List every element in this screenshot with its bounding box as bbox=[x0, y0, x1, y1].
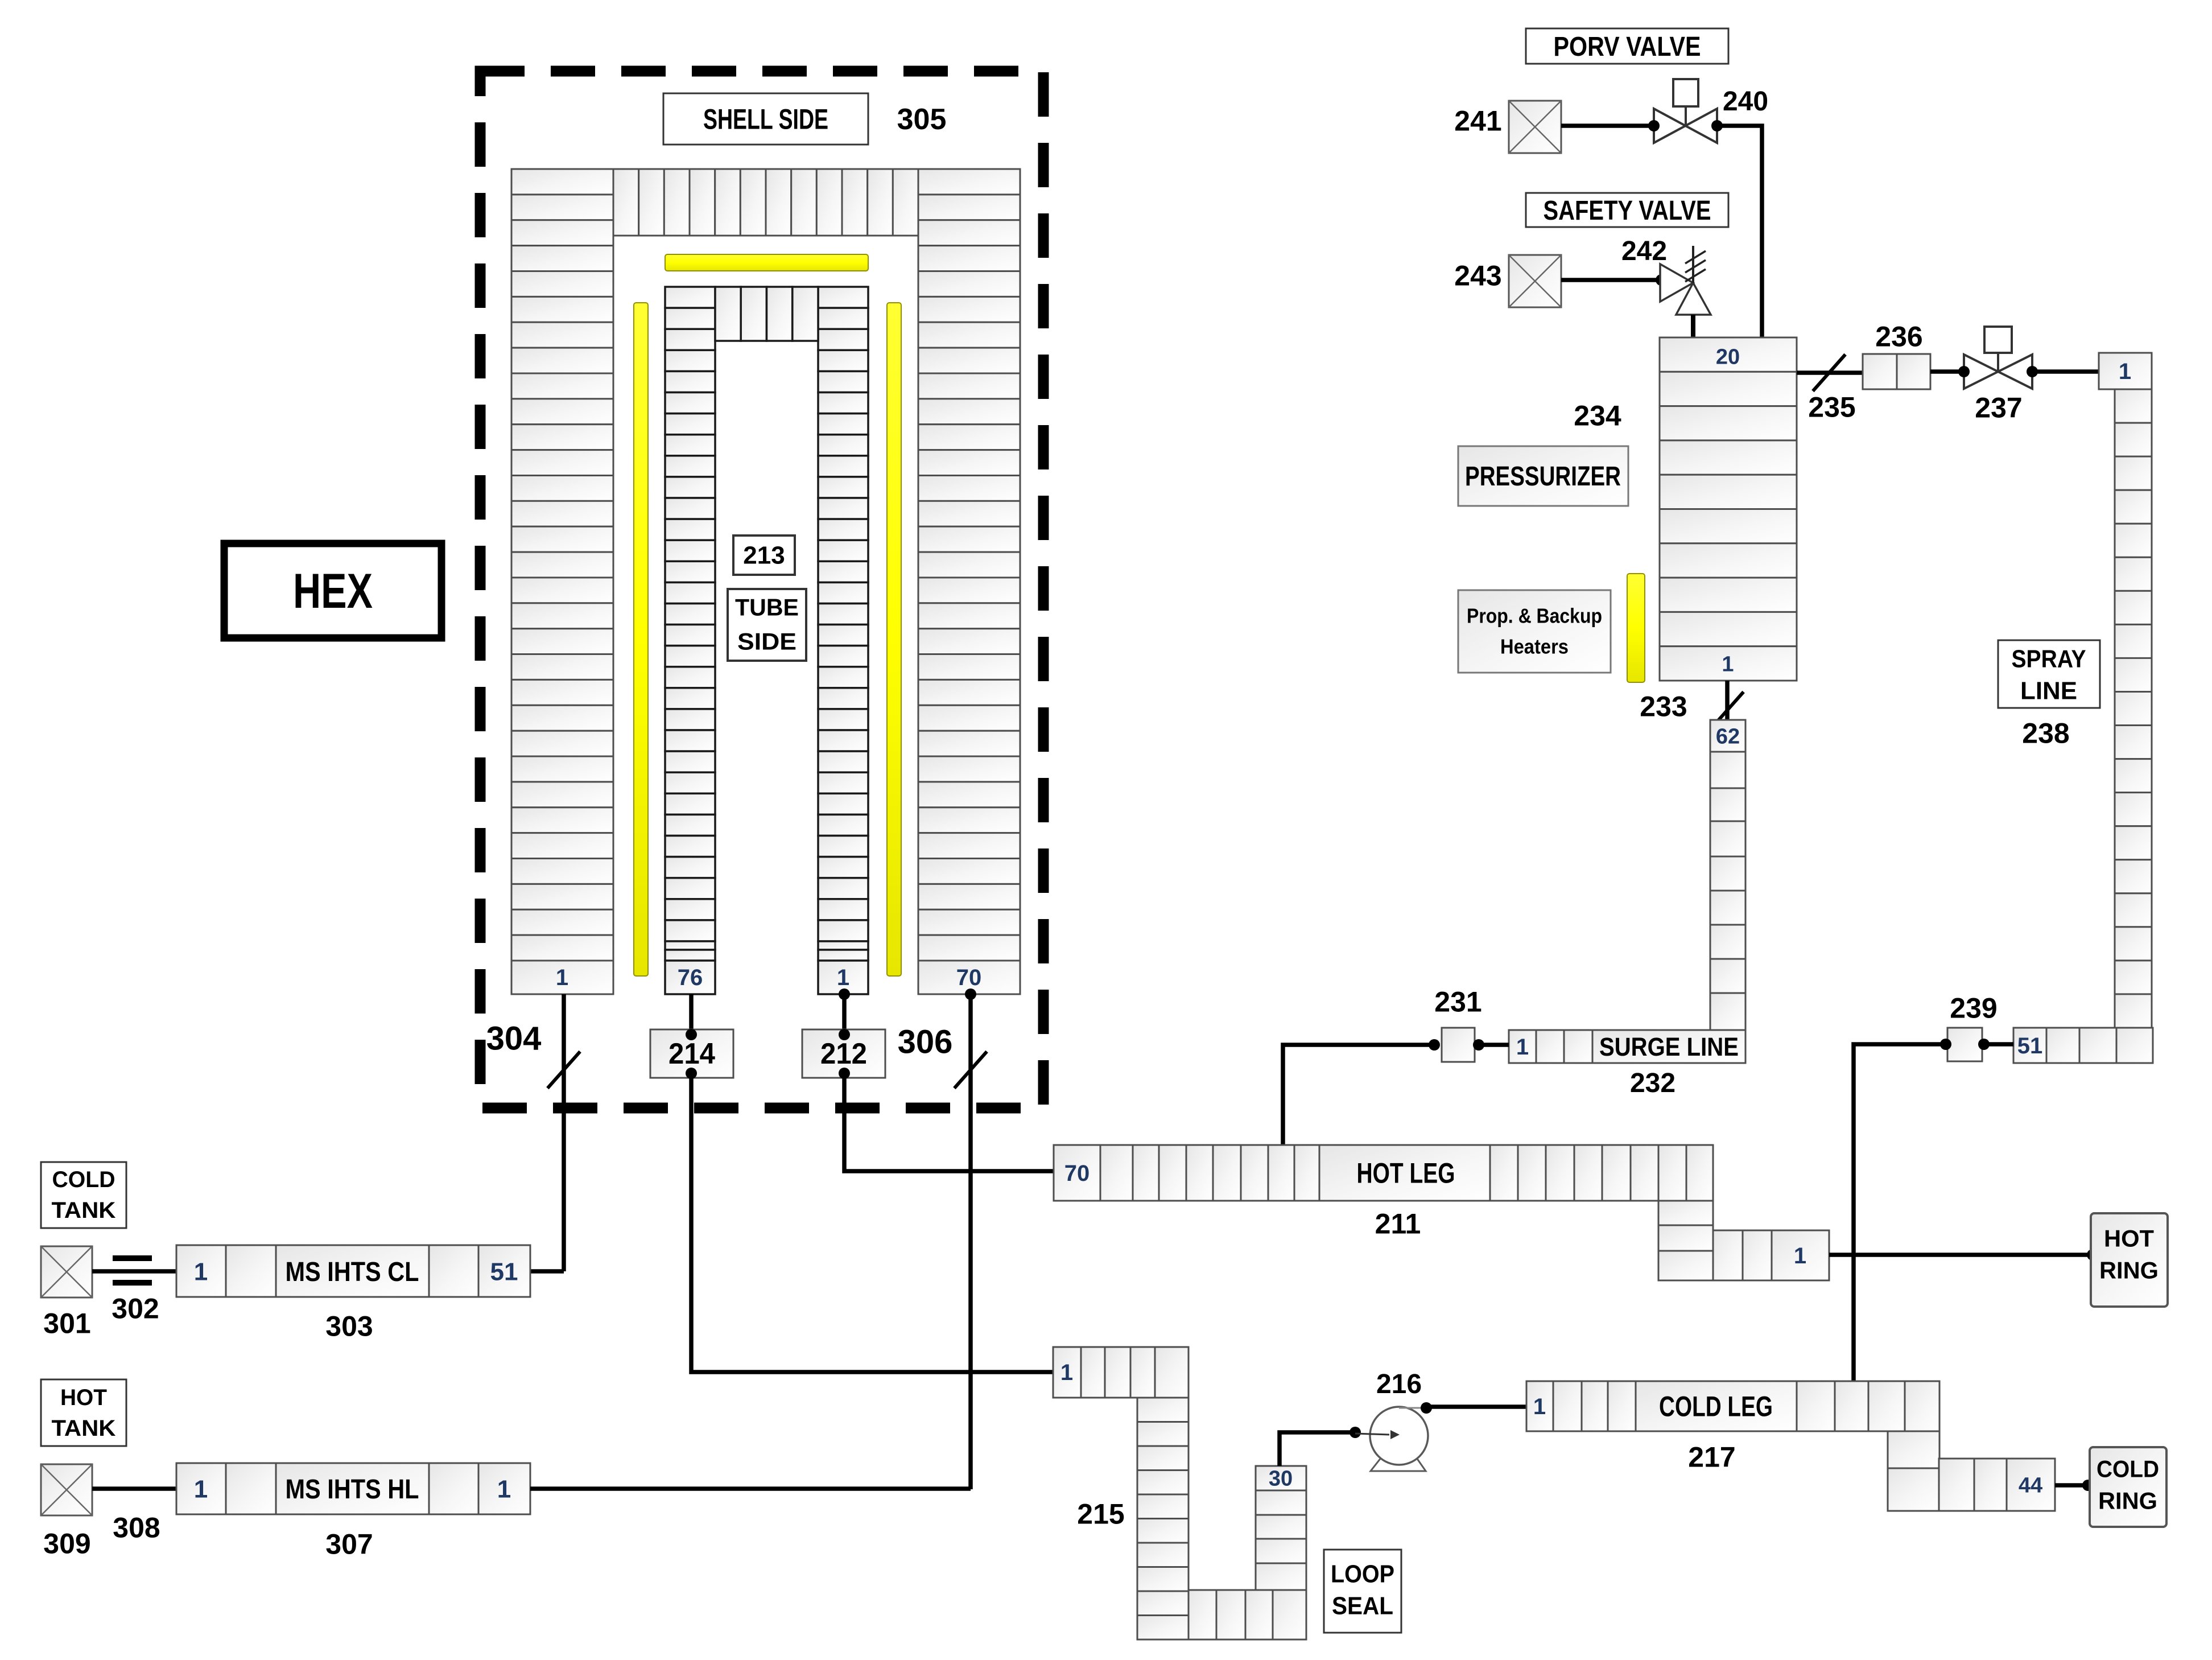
svg-text:SHELL SIDE: SHELL SIDE bbox=[703, 104, 828, 135]
svg-text:213: 213 bbox=[743, 541, 785, 569]
svg-text:304: 304 bbox=[486, 1020, 542, 1057]
svg-text:51: 51 bbox=[490, 1258, 518, 1286]
svg-text:236: 236 bbox=[1875, 321, 1922, 353]
svg-text:1: 1 bbox=[837, 965, 849, 990]
svg-text:COLD: COLD bbox=[52, 1167, 115, 1192]
svg-text:212: 212 bbox=[820, 1037, 867, 1070]
svg-text:LINE: LINE bbox=[2020, 677, 2077, 705]
svg-text:44: 44 bbox=[2019, 1473, 2042, 1497]
svg-text:211: 211 bbox=[1375, 1208, 1421, 1240]
svg-text:70: 70 bbox=[956, 965, 982, 990]
svg-text:307: 307 bbox=[325, 1529, 373, 1560]
svg-text:RING: RING bbox=[2098, 1488, 2157, 1514]
svg-text:62: 62 bbox=[1716, 724, 1740, 748]
svg-text:1: 1 bbox=[194, 1258, 208, 1286]
svg-text:214: 214 bbox=[668, 1037, 715, 1070]
svg-text:PORV VALVE: PORV VALVE bbox=[1554, 32, 1701, 62]
svg-text:238: 238 bbox=[2022, 718, 2069, 749]
svg-text:70: 70 bbox=[1064, 1161, 1090, 1186]
svg-text:305: 305 bbox=[897, 103, 947, 136]
svg-text:51: 51 bbox=[2017, 1033, 2043, 1058]
svg-text:HOT: HOT bbox=[2104, 1225, 2154, 1252]
svg-text:1: 1 bbox=[1722, 652, 1734, 676]
svg-text:1: 1 bbox=[194, 1475, 208, 1503]
svg-text:215: 215 bbox=[1077, 1498, 1124, 1530]
svg-text:237: 237 bbox=[1975, 392, 2022, 424]
svg-text:SPRAY: SPRAY bbox=[2012, 645, 2086, 673]
svg-text:235: 235 bbox=[1808, 392, 1855, 423]
svg-text:20: 20 bbox=[1716, 345, 1740, 369]
svg-text:302: 302 bbox=[112, 1293, 159, 1325]
svg-text:1: 1 bbox=[1794, 1243, 1806, 1268]
svg-text:1: 1 bbox=[2119, 359, 2131, 384]
svg-text:TANK: TANK bbox=[52, 1416, 116, 1441]
svg-text:MS IHTS HL: MS IHTS HL bbox=[286, 1474, 419, 1505]
svg-text:217: 217 bbox=[1688, 1441, 1735, 1473]
svg-text:HOT LEG: HOT LEG bbox=[1357, 1158, 1455, 1189]
svg-text:HEX: HEX bbox=[293, 564, 373, 619]
svg-text:233: 233 bbox=[1640, 691, 1687, 723]
svg-text:309: 309 bbox=[43, 1528, 90, 1560]
svg-text:308: 308 bbox=[113, 1512, 160, 1544]
svg-text:PRESSURIZER: PRESSURIZER bbox=[1465, 462, 1621, 492]
svg-text:MS IHTS CL: MS IHTS CL bbox=[286, 1257, 419, 1287]
svg-text:RING: RING bbox=[2099, 1257, 2159, 1284]
svg-text:Heaters: Heaters bbox=[1500, 635, 1569, 658]
svg-text:1: 1 bbox=[556, 965, 568, 990]
svg-text:243: 243 bbox=[1454, 260, 1501, 292]
svg-text:303: 303 bbox=[325, 1311, 373, 1342]
svg-text:1: 1 bbox=[497, 1475, 511, 1503]
svg-text:216: 216 bbox=[1376, 1369, 1422, 1399]
svg-text:Prop. & Backup: Prop. & Backup bbox=[1467, 604, 1602, 628]
svg-text:301: 301 bbox=[43, 1308, 90, 1340]
svg-text:76: 76 bbox=[678, 965, 703, 990]
svg-text:1: 1 bbox=[1533, 1394, 1546, 1419]
svg-text:242: 242 bbox=[1621, 236, 1667, 266]
svg-text:231: 231 bbox=[1434, 986, 1481, 1018]
svg-text:1: 1 bbox=[1516, 1035, 1529, 1060]
svg-text:234: 234 bbox=[1574, 400, 1621, 432]
svg-text:HOT: HOT bbox=[60, 1385, 107, 1410]
svg-text:LOOP: LOOP bbox=[1331, 1560, 1394, 1588]
svg-text:TANK: TANK bbox=[52, 1198, 116, 1223]
svg-text:240: 240 bbox=[1723, 86, 1768, 117]
svg-text:30: 30 bbox=[1269, 1467, 1293, 1490]
svg-text:COLD: COLD bbox=[2097, 1456, 2159, 1482]
svg-text:232: 232 bbox=[1630, 1068, 1675, 1098]
svg-text:239: 239 bbox=[1950, 992, 1997, 1024]
svg-text:1: 1 bbox=[1060, 1360, 1073, 1385]
svg-text:SURGE LINE: SURGE LINE bbox=[1599, 1032, 1739, 1061]
svg-text:SEAL: SEAL bbox=[1332, 1592, 1393, 1620]
svg-text:306: 306 bbox=[898, 1023, 953, 1060]
svg-text:COLD LEG: COLD LEG bbox=[1659, 1391, 1773, 1423]
svg-text:SAFETY VALVE: SAFETY VALVE bbox=[1544, 196, 1711, 226]
svg-text:241: 241 bbox=[1454, 105, 1501, 137]
svg-text:SIDE: SIDE bbox=[737, 628, 797, 655]
svg-text:TUBE: TUBE bbox=[735, 594, 799, 621]
